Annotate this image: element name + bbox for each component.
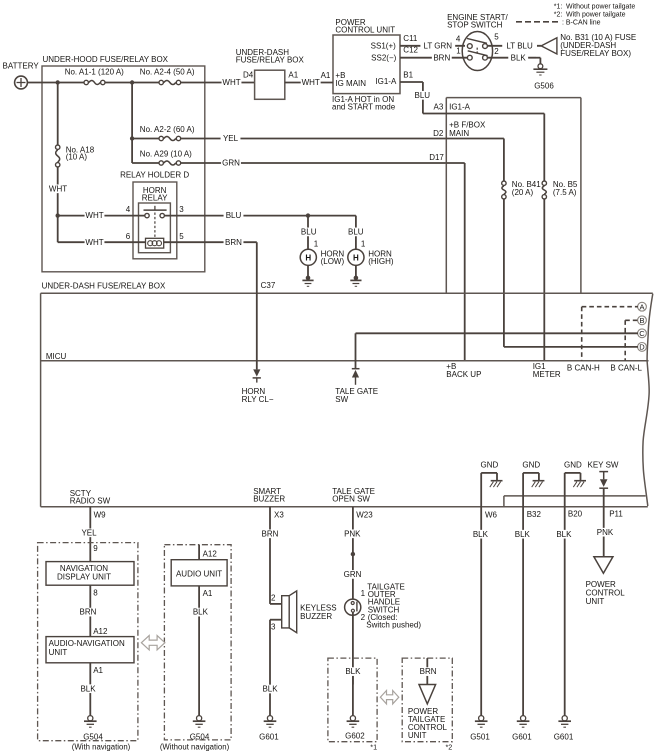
svg-text:*1: *1 <box>370 743 377 752</box>
svg-text:PNK: PNK <box>597 528 614 537</box>
svg-text:Switch pushed): Switch pushed) <box>366 621 421 630</box>
svg-text:FUSE/RELAY BOX: FUSE/RELAY BOX <box>236 56 305 65</box>
svg-text:W6: W6 <box>485 510 498 519</box>
svg-text:(7.5 A): (7.5 A) <box>553 188 577 197</box>
svg-text:*2: *2 <box>446 743 453 752</box>
svg-text:RELAY: RELAY <box>142 193 168 202</box>
svg-text:G504: G504 <box>190 733 210 742</box>
svg-text:6: 6 <box>126 232 131 241</box>
svg-text:C12: C12 <box>403 46 418 55</box>
svg-text:WHT: WHT <box>49 184 67 193</box>
svg-text:A3: A3 <box>434 103 444 112</box>
svg-text:4: 4 <box>126 205 131 214</box>
svg-text:GRN: GRN <box>222 159 240 168</box>
svg-text:A1: A1 <box>321 71 331 80</box>
svg-text:A12: A12 <box>93 627 108 636</box>
svg-text:BLK: BLK <box>262 685 278 694</box>
svg-text:H: H <box>353 253 359 262</box>
svg-text:D4: D4 <box>243 71 254 80</box>
svg-text:SS1(+): SS1(+) <box>371 41 396 50</box>
svg-text:A12: A12 <box>203 549 218 558</box>
svg-text:LT GRN: LT GRN <box>423 41 452 50</box>
svg-text:B32: B32 <box>527 510 542 519</box>
svg-text:X3: X3 <box>274 510 284 519</box>
svg-text:1: 1 <box>361 240 366 249</box>
svg-text:No. A2-4 (50 A): No. A2-4 (50 A) <box>140 67 195 76</box>
svg-text:(Without navigation): (Without navigation) <box>160 742 230 751</box>
svg-text:PNK: PNK <box>344 529 361 538</box>
svg-text:AUDIO UNIT: AUDIO UNIT <box>176 570 222 579</box>
svg-text:No. A29 (10 A): No. A29 (10 A) <box>140 149 192 158</box>
svg-text:(20 A): (20 A) <box>512 188 534 197</box>
svg-text:(With navigation): (With navigation) <box>72 742 131 751</box>
svg-text:D: D <box>639 343 645 352</box>
svg-text:FUSE/RELAY BOX): FUSE/RELAY BOX) <box>560 49 631 58</box>
svg-text:WHT: WHT <box>222 78 240 87</box>
svg-text:WHT: WHT <box>302 78 320 87</box>
svg-text:A1: A1 <box>288 71 298 80</box>
svg-text:5: 5 <box>494 33 499 42</box>
svg-text:9: 9 <box>93 544 98 553</box>
svg-text:UNIT: UNIT <box>49 648 68 657</box>
svg-text:BLK: BLK <box>80 684 96 693</box>
svg-text:BRN: BRN <box>420 667 437 676</box>
svg-text:GND: GND <box>522 460 540 469</box>
svg-text:RLY CL−: RLY CL− <box>242 395 274 404</box>
svg-text:G601: G601 <box>554 733 574 742</box>
svg-text:Without power tailgate: Without power tailgate <box>566 4 635 11</box>
svg-text:GRN: GRN <box>344 570 362 579</box>
svg-text:BLK: BLK <box>556 530 572 539</box>
svg-text:DISPLAY UNIT: DISPLAY UNIT <box>57 572 111 581</box>
svg-text:C: C <box>639 329 645 338</box>
svg-text:RELAY HOLDER D: RELAY HOLDER D <box>120 171 189 180</box>
svg-text:3: 3 <box>179 205 184 214</box>
svg-text:1: 1 <box>314 240 319 249</box>
svg-text:2: 2 <box>361 613 366 622</box>
svg-text:A1: A1 <box>93 666 103 675</box>
svg-text:W9: W9 <box>94 510 107 519</box>
svg-text:W23: W23 <box>356 510 373 519</box>
svg-text:(LOW): (LOW) <box>321 257 345 266</box>
svg-text:BACK UP: BACK UP <box>446 370 481 379</box>
svg-text:BLU: BLU <box>415 91 431 100</box>
svg-text:8: 8 <box>93 589 98 598</box>
svg-text:AUDIO-NAVIGATION: AUDIO-NAVIGATION <box>49 639 125 648</box>
svg-text:RADIO SW: RADIO SW <box>70 497 111 506</box>
svg-text:H: H <box>305 253 311 262</box>
svg-text:C11: C11 <box>403 34 418 43</box>
svg-text:BRN: BRN <box>262 529 279 538</box>
svg-text:2: 2 <box>494 47 499 56</box>
svg-text:4: 4 <box>456 35 461 44</box>
svg-text:D2: D2 <box>433 129 444 138</box>
svg-text:B CAN-H: B CAN-H <box>567 364 600 373</box>
svg-text:1: 1 <box>456 47 461 56</box>
svg-text:and START mode: and START mode <box>332 102 396 111</box>
svg-text:UNIT: UNIT <box>586 597 605 606</box>
svg-text:G506: G506 <box>534 82 554 91</box>
svg-text:IG1-A: IG1-A <box>375 77 397 86</box>
svg-text:GND: GND <box>564 460 582 469</box>
svg-text:D17: D17 <box>429 153 444 162</box>
svg-text:G601: G601 <box>259 733 279 742</box>
svg-text:BRN: BRN <box>80 608 97 617</box>
svg-text:BLU: BLU <box>301 228 317 237</box>
svg-text:UNIT: UNIT <box>408 731 427 740</box>
svg-text:C37: C37 <box>261 281 276 290</box>
svg-text:2: 2 <box>271 594 276 603</box>
svg-text:5: 5 <box>179 232 184 241</box>
svg-text:IG1-A: IG1-A <box>449 103 471 112</box>
svg-text:BLK: BLK <box>345 667 361 676</box>
svg-text:P11: P11 <box>609 510 623 519</box>
svg-text:BLU: BLU <box>226 211 242 220</box>
svg-text:KEY SW: KEY SW <box>588 460 619 469</box>
svg-text:BRN: BRN <box>433 53 450 62</box>
svg-text:BLK: BLK <box>511 53 527 62</box>
svg-text:B1: B1 <box>403 71 413 80</box>
svg-text:*2:: *2: <box>554 11 563 18</box>
svg-text:G501: G501 <box>470 733 490 742</box>
svg-text:With power tailgate: With power tailgate <box>566 11 626 18</box>
svg-text:G504: G504 <box>83 733 103 742</box>
svg-text:MICU: MICU <box>46 352 67 361</box>
svg-text:YEL: YEL <box>81 528 97 537</box>
svg-text:B CAN-L: B CAN-L <box>610 364 642 373</box>
svg-text:No. A2-2 (60 A): No. A2-2 (60 A) <box>140 125 195 134</box>
svg-text:WHT: WHT <box>85 238 103 247</box>
svg-text:STOP SWITCH: STOP SWITCH <box>447 21 502 30</box>
svg-text:No. A1-1 (120 A): No. A1-1 (120 A) <box>65 67 124 76</box>
svg-text:B: B <box>639 316 644 325</box>
svg-text:GND: GND <box>481 460 499 469</box>
svg-text:YEL: YEL <box>223 134 239 143</box>
svg-text:BLU: BLU <box>348 228 364 237</box>
svg-text:BRN: BRN <box>225 238 242 247</box>
svg-text:UNDER-DASH FUSE/RELAY BOX: UNDER-DASH FUSE/RELAY BOX <box>42 282 166 291</box>
svg-text:BLK: BLK <box>515 530 531 539</box>
svg-text:LT BLU: LT BLU <box>506 41 533 50</box>
svg-text:A1: A1 <box>203 589 213 598</box>
svg-text:BLK: BLK <box>473 530 489 539</box>
svg-text:OPEN SW: OPEN SW <box>332 495 370 504</box>
svg-text:(10 A): (10 A) <box>66 153 88 162</box>
svg-text:METER: METER <box>533 370 561 379</box>
svg-text:WHT: WHT <box>85 211 103 220</box>
svg-text:BATTERY: BATTERY <box>3 62 40 71</box>
svg-text:G601: G601 <box>512 733 532 742</box>
svg-text:IG MAIN: IG MAIN <box>335 79 366 88</box>
svg-text:: B-CAN line: : B-CAN line <box>562 20 601 27</box>
svg-text:A: A <box>639 302 644 311</box>
svg-text:BLK: BLK <box>193 608 209 617</box>
svg-text:SS2(−): SS2(−) <box>371 54 396 63</box>
svg-text:(HIGH): (HIGH) <box>368 257 394 266</box>
svg-text:SW: SW <box>335 395 348 404</box>
svg-text:UNDER-HOOD FUSE/RELAY BOX: UNDER-HOOD FUSE/RELAY BOX <box>43 55 169 64</box>
svg-text:G602: G602 <box>345 732 365 741</box>
svg-text:1: 1 <box>361 589 366 598</box>
svg-text:3: 3 <box>271 622 276 631</box>
svg-text:MAIN: MAIN <box>449 129 469 138</box>
svg-text:CONTROL UNIT: CONTROL UNIT <box>335 26 395 35</box>
svg-text:BUZZER: BUZZER <box>253 495 285 504</box>
svg-text:BUZZER: BUZZER <box>300 612 332 621</box>
svg-text:*1:: *1: <box>554 4 563 11</box>
svg-text:B20: B20 <box>568 510 583 519</box>
